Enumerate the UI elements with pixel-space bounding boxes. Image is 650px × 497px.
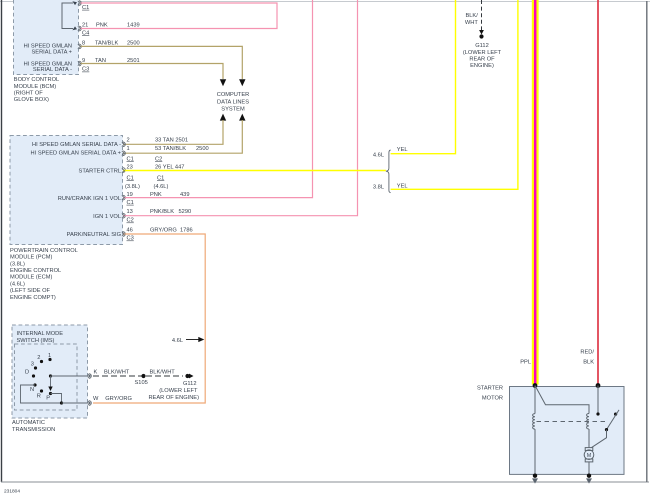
BCM label HI SPEED GMLAN SERIAL DATA + bbox=[24, 43, 73, 55]
svg-text:(LEFT SIDE OF: (LEFT SIDE OF bbox=[10, 288, 51, 294]
svg-text:C1: C1 bbox=[127, 156, 134, 162]
wire TAN/BLK 2500 from BCM pin 8 bbox=[80, 46, 242, 79]
PCM pin 19 bbox=[123, 192, 190, 200]
svg-text:MODULE (PCM): MODULE (PCM) bbox=[10, 255, 52, 261]
junction dot starter ground left bbox=[533, 474, 537, 478]
svg-text:ENGINE CONTROL: ENGINE CONTROL bbox=[10, 268, 61, 274]
svg-text:1: 1 bbox=[127, 146, 130, 152]
wire pole to K pin bbox=[51, 375, 91, 377]
svg-text:C3: C3 bbox=[82, 67, 89, 73]
wire YEL 447 horizontal bbox=[123, 170, 386, 172]
svg-text:(3.8L): (3.8L) bbox=[10, 262, 25, 268]
svg-text:ENGINE COMPT): ENGINE COMPT) bbox=[10, 295, 56, 301]
svg-text:19: 19 bbox=[127, 192, 133, 198]
4.6L pointer arrow to GRY/ORG wire bbox=[172, 337, 204, 344]
svg-text:BODY CONTROL: BODY CONTROL bbox=[14, 77, 59, 83]
junction dot starter ground right bbox=[587, 474, 591, 478]
svg-text:1439: 1439 bbox=[127, 23, 140, 29]
svg-text:REAR OF ENGINE): REAR OF ENGINE) bbox=[148, 395, 199, 401]
border frame right bbox=[646, 1, 648, 482]
solenoid pull-in coil (right) bbox=[587, 414, 589, 448]
arrow up into computer data lines (left) bbox=[220, 114, 226, 121]
wire YEL 4.6L branch bbox=[391, 0, 456, 154]
svg-text:26 YEL 447: 26 YEL 447 bbox=[155, 164, 184, 170]
node COMPUTER DATA LINES SYSTEM bbox=[217, 92, 250, 113]
BCM pin 21 C4 bbox=[79, 23, 140, 37]
svg-text:D: D bbox=[25, 369, 29, 375]
junction dot W node bbox=[60, 401, 63, 404]
solenoid hold-in coil (left) bbox=[533, 386, 535, 476]
svg-text:BLK/: BLK/ bbox=[465, 13, 478, 19]
svg-text:WHT: WHT bbox=[465, 20, 478, 26]
PCM connector labels C1 C2 bbox=[127, 156, 163, 162]
label RED/BLK bbox=[580, 350, 594, 366]
BCM label HI SPEED GMLAN SERIAL DATA - bbox=[24, 61, 72, 73]
svg-text:PNK: PNK bbox=[96, 23, 108, 29]
svg-text:(LOWER LEFT: (LOWER LEFT bbox=[159, 388, 198, 394]
svg-text:G112: G112 bbox=[183, 381, 197, 387]
svg-text:13: 13 bbox=[127, 209, 133, 215]
svg-text:33 TAN 2501: 33 TAN 2501 bbox=[155, 138, 188, 144]
svg-text:(4.6L): (4.6L) bbox=[154, 184, 169, 190]
arrow up into computer data lines (right) bbox=[239, 114, 245, 121]
ground G112 (lower left rear of engine) bbox=[148, 374, 199, 401]
svg-text:MOTOR: MOTOR bbox=[482, 396, 503, 402]
PCM pin 13 bbox=[123, 209, 191, 218]
svg-text:BLK/WHT: BLK/WHT bbox=[104, 370, 130, 376]
svg-text:5290: 5290 bbox=[179, 209, 192, 215]
svg-text:GRY/ORG: GRY/ORG bbox=[105, 396, 132, 402]
wire GRY/ORG 1786 bbox=[93, 234, 205, 403]
svg-text:MODULE (ECM): MODULE (ECM) bbox=[10, 275, 52, 281]
arrow down into computer data lines (right) bbox=[239, 79, 245, 86]
ground G112 (top) bbox=[463, 30, 502, 69]
switch contact P bbox=[46, 392, 52, 401]
PCM pin 1 bbox=[123, 146, 209, 156]
svg-text:SERIAL DATA +: SERIAL DATA + bbox=[31, 49, 72, 55]
svg-text:C4: C4 bbox=[82, 30, 89, 36]
svg-text:HI SPEED GMLAN SERIAL DATA +: HI SPEED GMLAN SERIAL DATA + bbox=[31, 150, 122, 156]
svg-text:YEL: YEL bbox=[397, 147, 408, 153]
svg-text:PARK/NEUTRAL SIG: PARK/NEUTRAL SIG bbox=[67, 232, 121, 238]
pin chevrons bbox=[78, 1, 125, 405]
wire PNK 1439 loop bbox=[80, 3, 277, 29]
wire TAN/BLK 2500 to PCM pin 1 bbox=[123, 120, 242, 153]
PCM connector labels C1 C1 bbox=[127, 175, 165, 181]
svg-text:STARTER: STARTER bbox=[477, 386, 503, 392]
svg-text:4.6L: 4.6L bbox=[373, 152, 384, 158]
switch contact R bbox=[37, 389, 43, 399]
PCM pin 46 bbox=[123, 228, 193, 237]
svg-text:ENGINE): ENGINE) bbox=[470, 63, 494, 69]
wire PPL core bbox=[534, 0, 537, 385]
BCM pin C1 (top) bbox=[79, 1, 89, 11]
svg-text:2500: 2500 bbox=[127, 40, 140, 46]
svg-text:PNK/BLK: PNK/BLK bbox=[150, 209, 174, 215]
svg-text:2: 2 bbox=[127, 138, 130, 144]
svg-text:RED/: RED/ bbox=[580, 350, 594, 356]
svg-text:REAR OF: REAR OF bbox=[469, 56, 495, 62]
svg-text:(LOWER LEFT: (LOWER LEFT bbox=[463, 50, 502, 56]
svg-text:BLK/WHT: BLK/WHT bbox=[150, 370, 176, 376]
wire RED/BLK bbox=[597, 0, 599, 385]
arrow down into computer data lines (left) bbox=[220, 79, 226, 86]
svg-text:C1: C1 bbox=[82, 5, 89, 11]
svg-text:AUTOMATIC: AUTOMATIC bbox=[12, 420, 45, 426]
BCM internal jumper bracket bbox=[62, 1, 77, 30]
IMS pin W bbox=[89, 396, 99, 406]
BCM pin 9 C3 bbox=[79, 58, 140, 73]
border frame left bbox=[1, 0, 3, 482]
svg-text:3.8L: 3.8L bbox=[373, 184, 384, 190]
svg-text:2: 2 bbox=[37, 355, 40, 361]
svg-text:(RIGHT OF: (RIGHT OF bbox=[14, 90, 43, 96]
PCM box (powertrain control module) bbox=[10, 136, 123, 245]
border frame top bbox=[0, 1, 650, 3]
motor M bbox=[584, 448, 594, 476]
svg-text:2500: 2500 bbox=[196, 146, 209, 152]
svg-text:C3: C3 bbox=[127, 236, 134, 242]
svg-text:(3.8L): (3.8L) bbox=[125, 184, 140, 190]
svg-text:K: K bbox=[94, 370, 98, 376]
svg-text:M: M bbox=[587, 453, 591, 459]
svg-text:439: 439 bbox=[180, 192, 190, 198]
svg-text:PNK: PNK bbox=[150, 192, 162, 198]
switch contact 1 bbox=[48, 353, 52, 361]
PCM module caption bbox=[10, 248, 78, 301]
switch contact D bbox=[25, 369, 35, 377]
wire BLK/WHT vertical to top G112 bbox=[465, 0, 482, 30]
svg-text:C1: C1 bbox=[127, 200, 134, 206]
svg-text:W: W bbox=[93, 396, 99, 402]
svg-text:R: R bbox=[37, 393, 41, 399]
wire W node to W pin bbox=[62, 402, 91, 404]
solenoid pull-in coil branch wire bbox=[535, 386, 589, 414]
wire PNK 439 bbox=[123, 0, 313, 198]
svg-text:C1: C1 bbox=[127, 175, 134, 181]
solenoid contact switch arm bbox=[605, 410, 619, 431]
svg-text:4.6L: 4.6L bbox=[172, 338, 183, 344]
svg-text:PPL: PPL bbox=[520, 360, 531, 366]
PCM engine labels (3.8L) (4.6L) bbox=[125, 184, 168, 190]
svg-text:IGN 1 VOL: IGN 1 VOL bbox=[93, 214, 121, 220]
svg-text:G112: G112 bbox=[475, 43, 489, 49]
border frame bottom bbox=[1, 481, 649, 483]
plunger linkage (dashed) bbox=[537, 421, 607, 423]
svg-text:46: 46 bbox=[127, 228, 133, 234]
wire BLK/WHT from S105 to G112 bbox=[146, 370, 183, 377]
svg-text:HI SPEED GMLAN: HI SPEED GMLAN bbox=[24, 43, 72, 49]
BCM pin 8 bbox=[79, 40, 140, 48]
svg-text:TRANSMISSION: TRANSMISSION bbox=[12, 427, 55, 433]
svg-text:C2: C2 bbox=[127, 218, 134, 224]
svg-text:3: 3 bbox=[31, 362, 34, 368]
svg-text:231804: 231804 bbox=[4, 489, 20, 495]
wire PPL highlighted (yellow trace) bbox=[532, 0, 539, 385]
svg-text:YEL: YEL bbox=[397, 183, 408, 189]
wire TAN 2501 to PCM pin 2 bbox=[123, 120, 223, 144]
switch contact 3 bbox=[31, 362, 37, 370]
wire TAN 2501 from BCM pin 9 bbox=[80, 64, 223, 80]
wire YEL 3.8L branch bbox=[391, 0, 518, 189]
svg-text:SERIAL DATA -: SERIAL DATA - bbox=[33, 67, 72, 73]
svg-text:SWITCH (IMS): SWITCH (IMS) bbox=[17, 338, 55, 344]
IMS module caption bbox=[12, 420, 55, 433]
starter motor caption bbox=[477, 386, 503, 402]
svg-text:COMPUTER: COMPUTER bbox=[217, 92, 250, 98]
wire BLK/WHT from K pin bbox=[93, 370, 142, 377]
BCM box (body control module) bbox=[14, 0, 79, 75]
svg-text:S105: S105 bbox=[135, 380, 148, 386]
svg-text:(4.6L): (4.6L) bbox=[10, 282, 25, 288]
svg-text:P: P bbox=[46, 395, 50, 401]
svg-text:N: N bbox=[30, 387, 34, 393]
svg-text:23: 23 bbox=[127, 164, 133, 170]
svg-text:21: 21 bbox=[82, 23, 88, 29]
ground arrow right below starter bbox=[586, 478, 592, 483]
svg-text:HI SPEED GMLAN SERIAL DATA -: HI SPEED GMLAN SERIAL DATA - bbox=[32, 142, 121, 148]
splice S105 bbox=[135, 374, 148, 386]
svg-text:53 TAN/BLK: 53 TAN/BLK bbox=[155, 146, 186, 152]
wire PNK/BLK 5290 bbox=[123, 0, 358, 216]
junction dot PPL at starter bbox=[533, 383, 538, 388]
svg-text:C2: C2 bbox=[155, 156, 162, 162]
brace split 3.8L/4.6L bbox=[386, 150, 391, 193]
wire N contact loop to W node bbox=[21, 385, 62, 403]
svg-text:INTERNAL MODE: INTERNAL MODE bbox=[17, 331, 64, 337]
junction dot RED/BLK at starter bbox=[596, 383, 601, 388]
svg-text:RUN/CRANK IGN 1 VOL: RUN/CRANK IGN 1 VOL bbox=[58, 196, 121, 202]
PCM pin 23/26 bbox=[123, 164, 184, 172]
switch pole bbox=[49, 374, 52, 377]
svg-text:BLK: BLK bbox=[583, 360, 594, 366]
BCM module caption bbox=[14, 77, 59, 103]
svg-text:SYSTEM: SYSTEM bbox=[221, 107, 245, 113]
IMS box (internal mode switch) bbox=[12, 325, 88, 418]
svg-text:8: 8 bbox=[82, 40, 85, 46]
wire P contact to W node bbox=[51, 394, 62, 404]
svg-text:GLOVE BOX): GLOVE BOX) bbox=[14, 97, 49, 103]
svg-text:MODULE (BCM): MODULE (BCM) bbox=[14, 84, 56, 90]
ground arrow left below starter bbox=[532, 478, 538, 483]
switch contact 2 bbox=[37, 355, 43, 363]
PCM pin 2 bbox=[123, 138, 188, 147]
switch contact N bbox=[30, 383, 37, 393]
wire contact arm to motor bbox=[592, 430, 607, 448]
IMS pin K bbox=[89, 370, 98, 379]
starter motor box bbox=[510, 387, 625, 475]
svg-text:1786: 1786 bbox=[180, 228, 193, 234]
pole selector arrow down to P bbox=[48, 376, 52, 391]
svg-text:TAN/BLK: TAN/BLK bbox=[95, 40, 118, 46]
svg-text:DATA LINES: DATA LINES bbox=[217, 99, 249, 105]
svg-text:POWERTRAIN CONTROL: POWERTRAIN CONTROL bbox=[10, 248, 78, 254]
svg-text:C1: C1 bbox=[157, 175, 164, 181]
svg-text:GRY/ORG: GRY/ORG bbox=[150, 228, 177, 234]
svg-text:STARTER CTRL: STARTER CTRL bbox=[79, 169, 121, 175]
battery feed into contact bbox=[596, 386, 599, 416]
IMS title bbox=[17, 331, 64, 344]
IMS inner switch box bbox=[15, 344, 78, 410]
